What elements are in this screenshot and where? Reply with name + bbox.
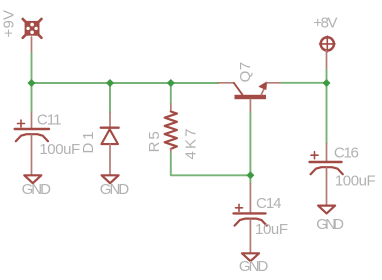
supply symbol +9V (crossed square): [23, 19, 42, 38]
svg-text:Q7: Q7: [237, 62, 254, 83]
resistor R5: [165, 104, 177, 154]
svg-text:C11: C11: [37, 112, 62, 129]
svg-text:C14: C14: [256, 195, 282, 212]
svg-text:GND: GND: [22, 181, 52, 198]
wire: +8V pin stub (red): [326, 51, 328, 70]
wire: base down to node (green): [249, 113, 251, 175]
svg-text:100uF: 100uF: [335, 173, 376, 190]
wire: +8V down through junction to C16 (green): [326, 70, 328, 144]
wire: +9V pin stub (red): [31, 37, 33, 54]
svg-text:+9V: +9V: [1, 10, 18, 37]
ground symbol under C14: [242, 253, 259, 261]
svg-text:4K7: 4K7: [183, 129, 200, 160]
wire: rail down to R5 (green): [170, 83, 172, 104]
wire: main +9V rail horizontal (green): [32, 82, 219, 84]
svg-text:R5: R5: [146, 131, 163, 152]
ground symbol under C11: [24, 175, 41, 183]
node junction at D1: [106, 79, 114, 87]
wire: +9V down to rail (green): [31, 54, 33, 84]
svg-text:GND: GND: [239, 258, 269, 275]
wire: collector lead red continuing rail: [218, 82, 234, 84]
svg-text:10uF: 10uF: [255, 221, 288, 238]
wire: R5 bottom to base node (green, L-shape): [171, 154, 251, 176]
svg-text:100uF: 100uF: [39, 141, 80, 158]
wire: rail down to D1 (green): [109, 83, 111, 113]
svg-text:D1: D1: [80, 132, 97, 154]
node junction at R5: [167, 79, 175, 87]
supply symbol +8V (circle with plus): [320, 36, 336, 52]
svg-text:GND: GND: [100, 181, 130, 198]
ground symbol under D1: [102, 175, 119, 183]
capacitor C11: [15, 112, 49, 175]
node junction emitter/+8V/C16: [323, 79, 331, 87]
ground symbol under C16: [318, 206, 335, 214]
node junction at C11 / rail corner: [28, 79, 36, 87]
capacitor C14: [234, 184, 267, 254]
transistor Q7 (PNP): [234, 82, 282, 113]
wire: emitter to +8V node (green): [282, 82, 327, 84]
node junction base/R5/C14: [246, 171, 254, 179]
svg-text:C16: C16: [334, 145, 359, 162]
wire: rail down to C11 (green): [31, 83, 33, 112]
wire: node down to C14 (green): [249, 175, 251, 183]
diode D1 (cathode up): [101, 113, 119, 176]
svg-text:+8V: +8V: [313, 15, 337, 32]
svg-text:GND: GND: [316, 216, 344, 233]
capacitor C16: [310, 143, 343, 205]
